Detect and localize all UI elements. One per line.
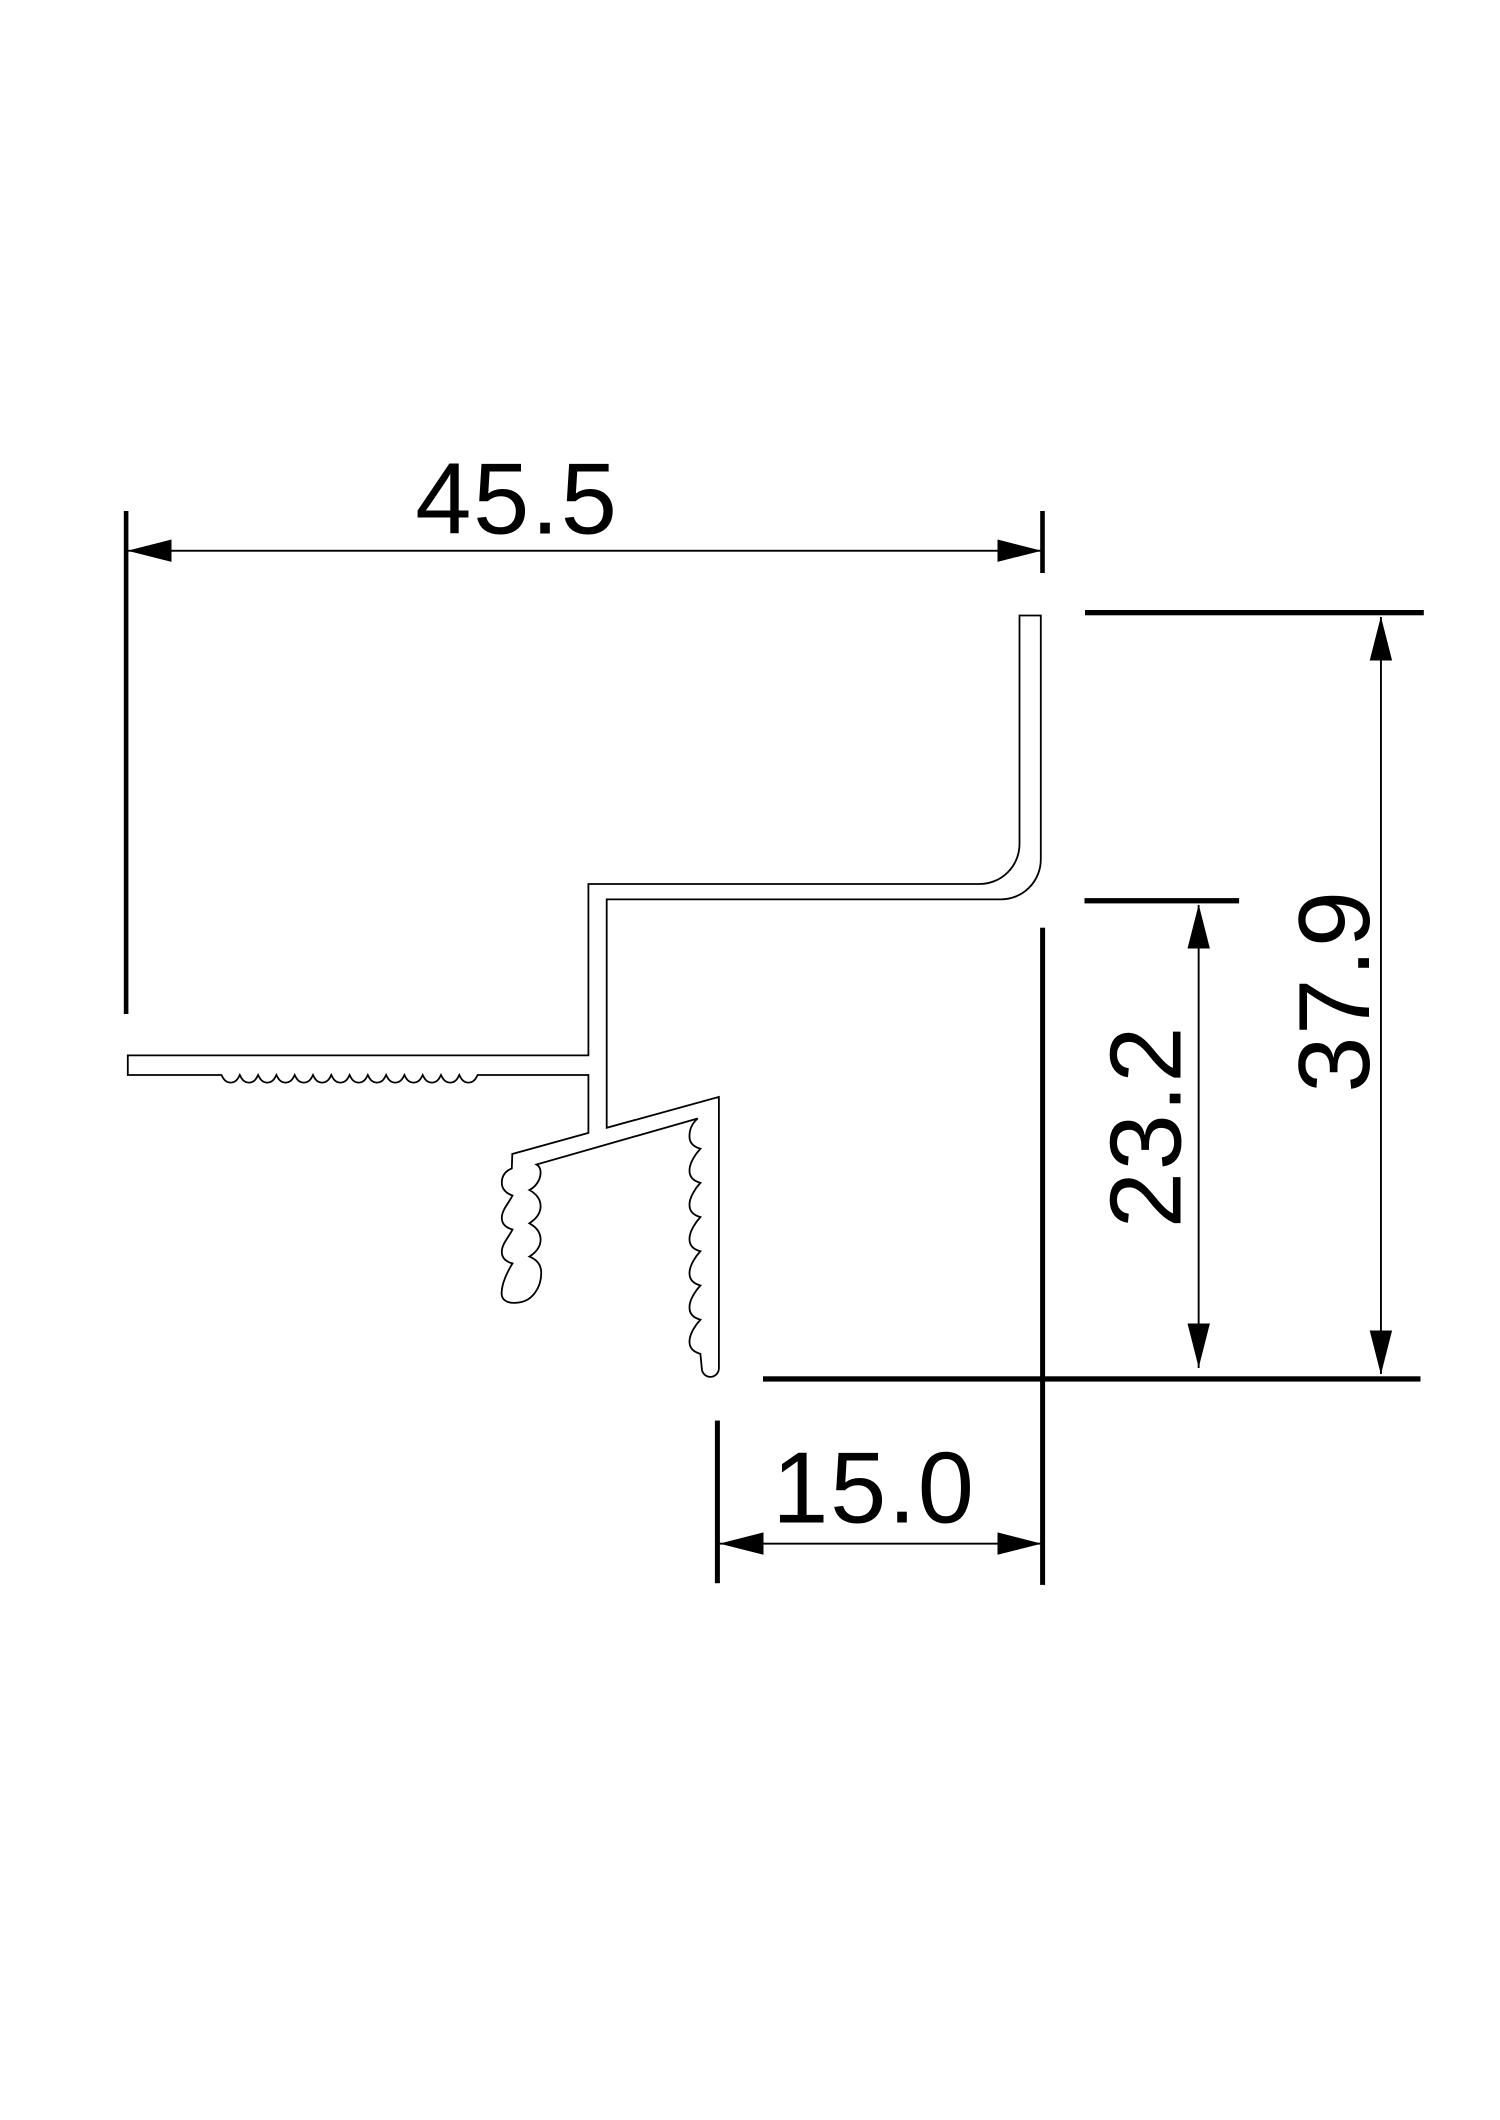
- svg-text:37.9: 37.9: [1279, 889, 1391, 1092]
- arrowhead right (45.5): [998, 540, 1042, 562]
- extension line top (23.2): [1085, 898, 1240, 903]
- profile outline (aluminium extrusion cross-section): [128, 616, 1041, 1377]
- arrowhead right (15.0): [998, 1532, 1042, 1554]
- arrowhead up (37.9): [1370, 617, 1392, 661]
- arrowhead left (45.5): [128, 540, 172, 562]
- arrowhead left (15.0): [720, 1532, 764, 1554]
- arrowhead up (23.2): [1188, 905, 1210, 949]
- dimension line 15.0: [719, 1543, 1042, 1545]
- svg-text:45.5: 45.5: [415, 443, 618, 555]
- extension line top (37.9): [1085, 610, 1424, 615]
- svg-text:15.0: 15.0: [772, 1433, 975, 1545]
- extension line left (15.0): [715, 1421, 720, 1584]
- arrowhead down (23.2): [1188, 1324, 1210, 1368]
- dimension line 23.2: [1198, 905, 1200, 1368]
- dimension line 37.9: [1380, 617, 1382, 1374]
- svg-text:23.2: 23.2: [1091, 1025, 1203, 1228]
- dimension line 45.5: [127, 550, 1042, 552]
- vertical reference line (right datum): [1040, 928, 1045, 1585]
- extension line right (45.5): [1040, 511, 1045, 573]
- arrowhead down (37.9): [1370, 1331, 1392, 1375]
- ground reference line (bottom datum): [763, 1376, 1421, 1381]
- extension line left (45.5): [124, 511, 129, 1014]
